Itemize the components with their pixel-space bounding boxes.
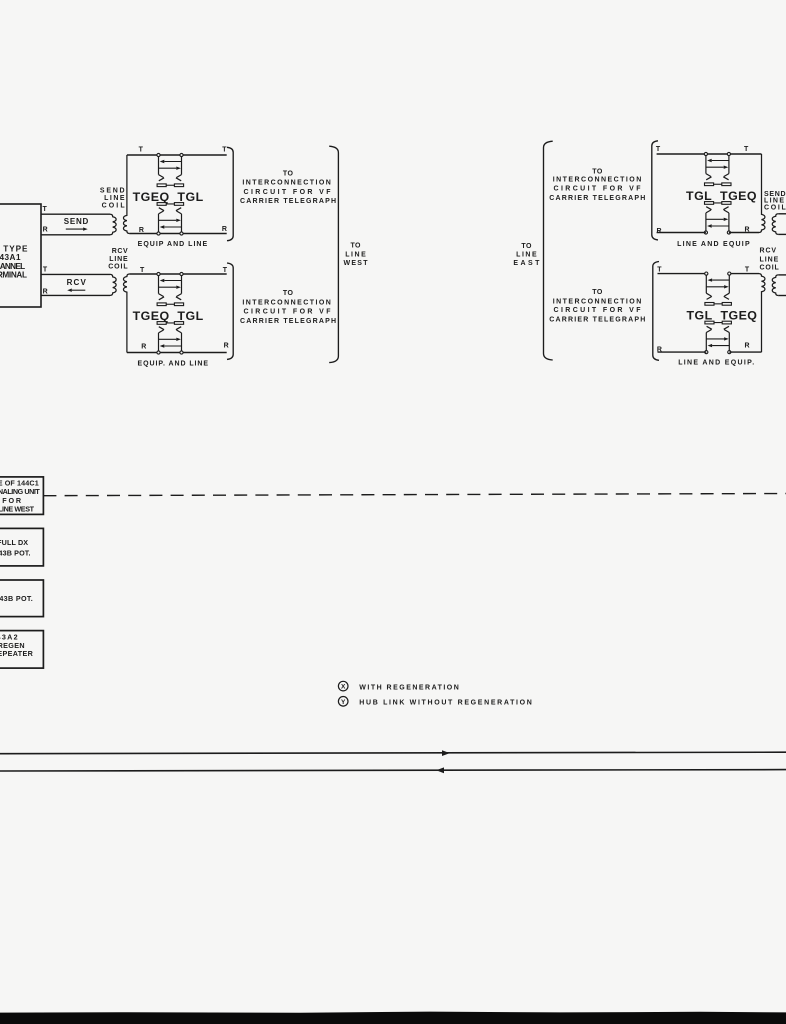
wire: jack E2 bottom left (R) [658, 351, 707, 353]
svg-text:TO: TO [351, 242, 362, 249]
svg-text:LINE WEST: LINE WEST [0, 505, 35, 514]
wire: jack E2 top left (T) [658, 273, 706, 275]
jack TGL TGEQ east send arrow lower-left [707, 224, 729, 227]
note: TO LINE EAST [513, 243, 540, 267]
svg-text:COIL: COIL [108, 263, 128, 270]
svg-text:HUB LINK WITHOUT REGENERATION: HUB LINK WITHOUT REGENERATION [359, 700, 532, 707]
carrier channel terminal box (west, cut off at left edge) [0, 204, 41, 307]
svg-text:RCV: RCV [67, 278, 87, 287]
wire: east rcv R to edge [778, 295, 786, 297]
jack TGL TGEQ east rcv arrow lower-left [708, 344, 730, 347]
svg-text:T: T [223, 267, 228, 274]
jack TGL TGEQ east rcv arrow upper-left [708, 278, 730, 281]
svg-text:T: T [140, 267, 145, 274]
RCV direction arrow [67, 289, 85, 292]
wire: jack E2 top right [729, 273, 759, 275]
svg-text:CARRIER TELEGRAPH: CARRIER TELEGRAPH [240, 318, 336, 325]
svg-text:3 TYPE: 3 TYPE [0, 244, 28, 253]
svg-text:Y: Y [341, 699, 346, 706]
svg-text:COIL: COIL [760, 265, 780, 272]
svg-text:TERMINAL: TERMINAL [0, 271, 27, 280]
rcv line coil east: equip winding [759, 274, 765, 353]
svg-text:LINE: LINE [516, 251, 537, 258]
svg-text:EQUIP. AND LINE: EQUIP. AND LINE [138, 360, 209, 367]
jack TGEQ TGL west send tip/ring terminals [157, 153, 183, 235]
jack TGEQ TGL west send: contacts [159, 155, 182, 234]
jack TGEQ TGL west send upper contact capsules [157, 184, 183, 187]
arrowhead eastbound [442, 750, 450, 756]
jack TGEQ TGL west rcv upper contact capsules [157, 303, 183, 306]
signaling unit box (left, cut off) [0, 477, 43, 515]
big bracket TO LINE WEST [329, 146, 338, 362]
wire: box T to send coil [41, 213, 110, 215]
rcv line coil west: equip winding [123, 274, 129, 353]
bracket jack E2 [653, 262, 659, 361]
svg-text:TO: TO [592, 289, 603, 296]
legend circle Y [338, 697, 348, 707]
svg-text:EPEATER: EPEATER [0, 649, 34, 658]
svg-text:X: X [341, 684, 346, 691]
svg-text:RCV: RCV [112, 248, 128, 255]
wire: east rcv T to edge [778, 274, 786, 276]
jack TGL TGEQ east send upper contact capsules [705, 183, 732, 186]
dashed line from signaling unit box [43, 494, 786, 496]
svg-text:T: T [656, 146, 661, 153]
jack TGL TGEQ east send tip/ring terminals [704, 152, 730, 234]
POT box (left, cut off) [0, 580, 43, 617]
svg-text:TO: TO [521, 243, 532, 250]
wire: box R to rcv coil [41, 294, 110, 296]
svg-text:T: T [43, 267, 48, 274]
jack TGEQ TGL west rcv arrow lower-left [160, 344, 182, 347]
svg-text:T: T [657, 266, 662, 273]
wire: box T to rcv coil [41, 273, 110, 275]
svg-text:TO: TO [592, 168, 603, 175]
svg-text:TGEQ TGL: TGEQ TGL [133, 190, 204, 204]
svg-text:LINE: LINE [345, 252, 366, 259]
svg-text:WITH REGENERATION: WITH REGENERATION [359, 684, 459, 691]
rcv line coil west: line winding [110, 274, 116, 295]
scan edge black bar [0, 1012, 786, 1024]
note: to interconnection circuit (east rcv) [549, 289, 645, 323]
jack TGL TGEQ east rcv upper contact capsules [705, 303, 732, 306]
big bracket TO LINE EAST [544, 141, 553, 360]
bracket jack W2 [227, 263, 233, 359]
svg-text:R: R [43, 227, 48, 234]
svg-text:R: R [657, 346, 662, 353]
long wire eastbound [0, 752, 786, 754]
svg-text:T: T [42, 206, 47, 213]
jack TGL TGEQ east send spring contacts [706, 174, 729, 213]
legend circle X [338, 681, 348, 691]
send line coil east: line winding [772, 214, 778, 235]
svg-text:RCV: RCV [760, 248, 777, 255]
wire: jack E1 top (T) [657, 153, 762, 155]
svg-text:T: T [222, 147, 227, 154]
regen repeater box (left, cut off) [0, 631, 43, 669]
note: to interconnection circuit (west send) [240, 171, 336, 205]
jack TGL TGEQ east send arrow upper-left [707, 159, 729, 162]
svg-text:NALING UNIT: NALING UNIT [0, 487, 40, 496]
jack TGEQ TGL west rcv arrow upper-right [159, 286, 181, 289]
wire: box R to send coil [41, 234, 110, 236]
wire: east send R to edge [778, 233, 786, 235]
svg-text:WEST: WEST [344, 260, 369, 267]
svg-text:TGL TGEQ: TGL TGEQ [686, 189, 757, 203]
jack TGEQ TGL west rcv: contacts [159, 274, 182, 353]
wire: jack W1 top (T) [127, 154, 227, 156]
svg-text:T: T [139, 147, 144, 154]
svg-text:43B POT.: 43B POT. [0, 548, 31, 557]
jack TGEQ TGL west rcv lower contact capsules [157, 322, 183, 325]
svg-text:T: T [744, 146, 749, 153]
arrowhead westbound [436, 767, 444, 773]
jack TGEQ TGL west send arrow upper-left [160, 160, 182, 163]
wire: jack W2 top (T) [129, 273, 226, 275]
wire: jack E2 bottom right [729, 351, 761, 353]
jack TGL TGEQ east rcv tip/ring terminals [705, 272, 731, 354]
send line coil west: line winding [110, 214, 116, 235]
jack TGEQ TGL west rcv spring contacts [159, 294, 182, 333]
jack TGEQ TGL west rcv arrow upper-left [160, 279, 182, 282]
long wire westbound [0, 770, 786, 771]
jack TGL TGEQ east rcv arrow lower-right [706, 337, 728, 340]
svg-text:CARRIER TELEGRAPH: CARRIER TELEGRAPH [549, 195, 645, 202]
send line coil east: equip winding [759, 154, 765, 233]
jack TGEQ TGL west send arrow lower-left [160, 225, 182, 228]
svg-text:LINE: LINE [760, 256, 779, 263]
svg-text:R: R [139, 227, 144, 234]
jack TGL TGEQ east rcv arrow upper-right [706, 285, 728, 288]
svg-text:CHANNEL: CHANNEL [0, 262, 25, 271]
svg-text:LINE AND EQUIP: LINE AND EQUIP [677, 241, 750, 248]
wire: jack E1 bottom right [729, 232, 759, 234]
svg-text:TGL TGEQ: TGL TGEQ [686, 308, 757, 322]
svg-text:COIL: COIL [102, 202, 126, 209]
bracket jack E1 [652, 141, 658, 240]
svg-text:FULL DX: FULL DX [0, 538, 28, 547]
svg-text:R: R [224, 343, 229, 350]
jack TGL TGEQ east rcv spring contacts [706, 293, 729, 332]
svg-text:SEND: SEND [100, 187, 125, 194]
svg-text:R: R [744, 343, 749, 350]
svg-text:R: R [141, 343, 146, 350]
svg-text:R: R [43, 288, 48, 295]
wire: east send T to edge [778, 213, 786, 215]
svg-text:43B POT.: 43B POT. [0, 594, 33, 603]
note: to interconnection circuit (east send) [549, 168, 645, 202]
jack TGEQ TGL west send arrow upper-right [159, 167, 181, 170]
svg-text:R: R [222, 226, 227, 233]
wire: jack W2 bottom (R) [127, 352, 227, 354]
svg-text:EQUIP AND LINE: EQUIP AND LINE [138, 241, 208, 248]
rcv line coil east: line winding [772, 275, 778, 296]
svg-text:CARRIER TELEGRAPH: CARRIER TELEGRAPH [240, 198, 336, 205]
svg-text:R: R [656, 228, 661, 235]
send line coil west: equip winding [123, 155, 129, 234]
svg-text:R: R [744, 226, 749, 233]
jack TGL TGEQ east rcv: contacts [706, 274, 729, 353]
svg-text:CARRIER TELEGRAPH: CARRIER TELEGRAPH [549, 316, 645, 323]
svg-text:TO: TO [283, 290, 294, 297]
svg-text:LINE: LINE [109, 256, 128, 263]
wire: jack E1 bottom left (R) [657, 232, 706, 234]
bracket jack W1 [227, 147, 233, 240]
jack TGL TGEQ east send lower contact capsules [705, 202, 732, 205]
svg-text:143A1: 143A1 [0, 253, 21, 262]
jack TGEQ TGL west send spring contacts [159, 175, 182, 214]
svg-text:COIL: COIL [764, 204, 786, 211]
svg-text:LINE: LINE [104, 195, 125, 202]
wire: jack W1 bottom (R) [129, 233, 226, 235]
svg-text:TGEQ TGL: TGEQ TGL [133, 309, 204, 323]
jack TGL TGEQ east send arrow upper-right [706, 166, 728, 169]
note: to interconnection circuit (west rcv) [240, 290, 336, 325]
note: TO LINE WEST [344, 242, 369, 267]
jack TGEQ TGL west rcv arrow lower-right [159, 338, 181, 341]
jack TGEQ TGL west rcv tip/ring terminals [157, 272, 183, 354]
DX box (left, cut off) [0, 528, 43, 566]
svg-text:TO: TO [283, 171, 294, 178]
jack TGEQ TGL west send arrow lower-right [159, 219, 181, 222]
jack TGL TGEQ east send: contacts [706, 154, 729, 233]
svg-text:SEND: SEND [64, 217, 89, 226]
jack TGL TGEQ east send arrow lower-right [706, 218, 728, 221]
jack TGEQ TGL west send lower contact capsules [157, 203, 183, 206]
jack TGL TGEQ east rcv lower contact capsules [705, 321, 732, 324]
SEND direction arrow [66, 227, 88, 230]
svg-text:T: T [745, 266, 750, 273]
